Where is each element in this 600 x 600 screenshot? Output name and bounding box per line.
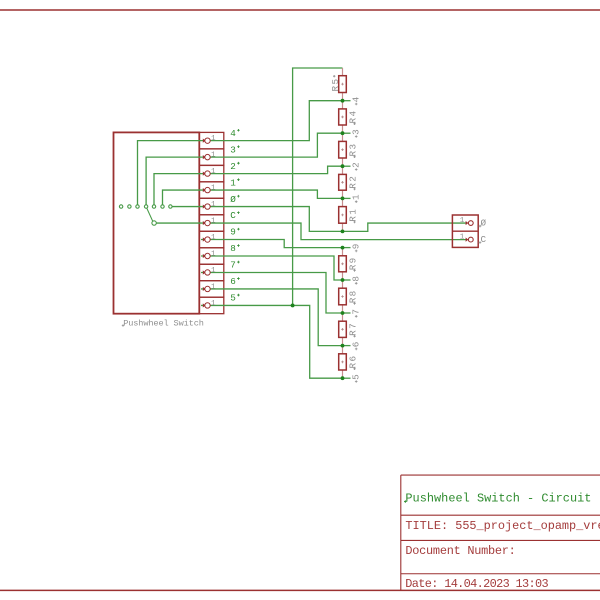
svg-text:5: 5 — [230, 293, 236, 304]
pushwheel switch S1 outline box — [114, 132, 200, 313]
wire net 2: rotary circle 5 up to cell 2, across to ladder tap 2 — [154, 166, 343, 205]
switch contact cell 8 — [199, 248, 224, 264]
wire net 3: rotary circle 4 up to cell 3, across to ladder tap 3 — [146, 133, 342, 205]
svg-text:1: 1 — [211, 300, 216, 308]
net label 1 at switch — [230, 177, 239, 188]
connector pin 2 symbol — [466, 237, 474, 242]
resistor R3 — [339, 133, 359, 166]
wire stub at node 8 — [343, 279, 351, 281]
resistor R5 — [330, 68, 347, 101]
svg-text:1: 1 — [211, 168, 216, 176]
resistor R1 — [339, 198, 359, 231]
rotary contact circle 2 — [128, 205, 131, 208]
resistor R4 — [339, 101, 359, 134]
wire stub at node 7 — [343, 312, 351, 314]
svg-text:Ø: Ø — [481, 217, 487, 228]
svg-text:R3: R3 — [348, 143, 359, 157]
switch contact symbol pin C — [203, 220, 210, 225]
svg-text:R9: R9 — [348, 256, 359, 270]
net label 5 at switch — [230, 293, 239, 304]
switch contact cell 1 — [199, 182, 224, 198]
junction node 8 — [341, 278, 345, 282]
svg-text:Pushwheel Switch: Pushwheel Switch — [123, 318, 204, 328]
wire stub at node 9 — [343, 247, 351, 249]
svg-text:1: 1 — [460, 233, 465, 241]
svg-text:8: 8 — [230, 243, 236, 254]
wire net 8: cell 8 to ladder tap 8 — [201, 256, 343, 280]
svg-text:1: 1 — [211, 218, 216, 226]
junction node 4 — [341, 99, 345, 103]
wire net 1: rotary circle 6 up to cell 1, across to ladder tap 1 — [163, 190, 343, 205]
resistor R8 — [339, 280, 359, 313]
net label 4 at switch — [230, 128, 239, 139]
svg-text:Pushwheel Switch - Circuit: Pushwheel Switch - Circuit — [405, 491, 591, 505]
svg-text:3: 3 — [230, 144, 236, 155]
rotary contact circle 6 — [161, 205, 164, 208]
wire net 7: cell 7 to ladder tap 7 — [201, 272, 343, 313]
rotary contact circle 5 — [152, 205, 155, 208]
wire net 0 branch: ladder tap 0 to connector pin 1 — [343, 223, 467, 231]
svg-text:1: 1 — [211, 283, 216, 291]
switch contact cell 9 — [199, 231, 224, 247]
svg-text:7: 7 — [351, 309, 362, 315]
switch contact symbol pin 2 — [203, 171, 210, 176]
svg-text:C: C — [481, 234, 487, 245]
switch contact cell 2 — [199, 165, 224, 181]
svg-text:7: 7 — [230, 260, 236, 271]
wire stub at node 4 — [343, 100, 351, 102]
net label 2 at switch — [230, 161, 239, 172]
svg-text:Document Number:: Document Number: — [405, 544, 515, 558]
rotary contact circle 4 — [144, 205, 147, 208]
svg-text:4: 4 — [230, 128, 236, 139]
switch contact symbol pin 3 — [203, 154, 210, 159]
switch contact symbol pin 5 — [203, 303, 210, 308]
svg-text:R4: R4 — [348, 110, 359, 124]
wire stub at node 3 — [343, 132, 351, 134]
frame bottom border line — [0, 589, 600, 591]
svg-text:9: 9 — [351, 244, 362, 250]
junction node 9 — [341, 246, 345, 250]
title block line above TITLE row — [401, 514, 600, 516]
svg-text:1: 1 — [211, 234, 216, 242]
wire net 9: cell 9 to ladder tap 9 — [201, 240, 343, 248]
junction node 5 riser — [291, 304, 295, 308]
resistor R6 — [339, 346, 359, 379]
wire net 0: rotary circle 7 through cell 0 to ladder tap 0 — [172, 207, 342, 232]
wiper arm — [147, 208, 153, 221]
wire net C: wiper circle through cell C to connector pin 2 — [156, 223, 466, 240]
svg-text:1: 1 — [211, 152, 216, 160]
resistor R9 — [339, 248, 359, 280]
junction node 1 — [341, 197, 345, 201]
svg-text:Date: 14.04.2023 13:03: Date: 14.04.2023 13:03 — [405, 577, 548, 591]
junction node 6 — [341, 344, 345, 348]
net label 8 at switch — [230, 243, 239, 254]
svg-text:R2: R2 — [348, 175, 359, 189]
svg-text:8: 8 — [351, 276, 362, 282]
connector J1 cell divider — [452, 230, 478, 232]
switch contact cell 3 — [199, 149, 224, 165]
switch contact symbol pin 9 — [203, 237, 210, 242]
svg-text:9: 9 — [230, 227, 236, 238]
wire net 6: cell 6 to ladder tap 6 — [201, 289, 343, 346]
title block line above Date row — [401, 573, 600, 575]
svg-text:C: C — [230, 210, 236, 221]
wire net 5: cell 5 to ladder bottom tap 5 — [201, 305, 343, 378]
switch contact cell 4 — [199, 132, 224, 148]
net label 6 at switch — [230, 276, 239, 287]
switch contact cell C — [199, 215, 224, 231]
net label 3 at switch — [230, 144, 239, 155]
wire net 4: rotary circle 3 up to cell 4, across to ladder tap 4 — [138, 101, 343, 205]
svg-text:1: 1 — [211, 201, 216, 209]
wire stub at node 5 — [343, 377, 351, 379]
switch contact symbol pin 4 — [203, 138, 210, 143]
rotary contact circle 1 — [119, 205, 122, 208]
svg-text:5: 5 — [351, 374, 362, 380]
title block top line — [401, 474, 600, 476]
net label 9 at switch — [230, 227, 239, 238]
connector J1 outline — [452, 215, 478, 247]
switch contact symbol pin 1 — [203, 187, 210, 192]
rotary contact circle 3 — [136, 205, 139, 208]
wiper contact circle — [152, 221, 156, 225]
switch contact cell 7 — [199, 264, 224, 280]
net label C at switch — [230, 210, 239, 221]
net label 7 at switch — [230, 260, 239, 271]
title block left border — [400, 475, 402, 590]
svg-text:6: 6 — [351, 342, 362, 348]
junction node 7 — [341, 311, 345, 315]
svg-text:1: 1 — [211, 185, 216, 193]
svg-text:1: 1 — [211, 267, 216, 275]
svg-text:TITLE: 555_project_opamp_vre: TITLE: 555_project_opamp_vre — [405, 519, 600, 533]
svg-text:1: 1 — [211, 250, 216, 258]
wire stub at node 2 — [343, 165, 351, 167]
svg-text:1: 1 — [211, 135, 216, 143]
svg-text:R5: R5 — [330, 78, 341, 92]
svg-text:R1: R1 — [348, 208, 359, 222]
net label 0 at switch — [230, 194, 239, 205]
junction node 3 — [341, 131, 345, 135]
rotary contact circle 7 — [169, 205, 172, 208]
svg-text:R8: R8 — [348, 289, 359, 303]
junction node 5 — [341, 376, 345, 380]
wire stub at node 6 — [343, 345, 351, 347]
switch contact cell 6 — [199, 281, 224, 297]
svg-text:1: 1 — [351, 194, 362, 200]
switch contact cell 0 — [199, 198, 224, 214]
title block line above Document Number row — [401, 539, 600, 541]
connector pin 1 symbol — [466, 221, 474, 226]
wire net 5 riser: row 5 up to ladder top — [293, 68, 343, 305]
connector net label 0 — [479, 217, 487, 228]
resistor R2 — [339, 166, 359, 198]
svg-text:4: 4 — [351, 96, 362, 102]
switch contact symbol pin 7 — [203, 270, 210, 275]
svg-text:2: 2 — [230, 161, 236, 172]
switch contact cell 5 — [199, 297, 224, 313]
svg-text:1: 1 — [230, 177, 236, 188]
switch contact symbol pin 0 — [203, 204, 210, 209]
junction node 0 — [341, 230, 345, 234]
svg-text:2: 2 — [351, 162, 362, 168]
switch contact symbol pin 8 — [203, 253, 210, 258]
svg-text:R6: R6 — [348, 355, 359, 369]
connector net label C — [479, 234, 487, 245]
switch contact symbol pin 6 — [203, 286, 210, 291]
svg-text:Ø: Ø — [230, 194, 236, 205]
wire stub at node 1 — [343, 197, 351, 199]
svg-text:3: 3 — [351, 129, 362, 135]
svg-text:R7: R7 — [348, 322, 359, 336]
resistor R7 — [339, 313, 359, 346]
junction node 2 — [341, 164, 345, 168]
svg-text:6: 6 — [230, 276, 236, 287]
frame top border line — [0, 9, 600, 11]
svg-text:1: 1 — [460, 217, 465, 225]
